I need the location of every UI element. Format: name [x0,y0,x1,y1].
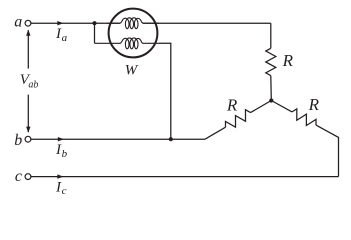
terminal b [25,136,31,142]
svg-text:R: R [226,95,238,114]
current arrow Ib [58,137,64,141]
voltage arrow Vab (double-headed, between a and b) [27,30,29,68]
wire: phase c line [31,176,339,178]
svg-text:ab: ab [28,80,38,91]
wire: b corner up to resistor R (left) [205,127,226,139]
svg-text:W: W [125,63,139,79]
current arrow Ic [57,174,63,178]
junction: b-line with wattmeter potential-coil return [169,137,173,141]
resistor R (left, phase b) [225,110,250,127]
wattmeter W: current coil (in phase a line) [107,18,159,29]
terminal a [25,20,31,26]
terminal c [25,174,31,180]
wattmeter W: meter circle [109,9,158,58]
wire: phase a line, wattmeter to top-right corner [143,22,271,24]
wattmeter W: potential coil [95,38,160,49]
svg-text:R: R [282,51,294,70]
svg-text:b: b [14,132,22,149]
wire: potential-coil left lead from junction down [94,23,96,43]
current arrow Ia [57,21,63,25]
wire: potential-coil right lead over and down to b line [159,43,171,139]
wire: wye node to resistor R (right) [271,101,292,112]
svg-text:a: a [62,32,68,44]
svg-text:c: c [62,185,67,197]
wire: resistor R (left) to wye node [251,101,272,113]
resistor R (right, phase c) [292,109,316,126]
wire: resistor R (top) to wye node [270,76,273,101]
resistor R (top, phase a) [266,48,276,75]
wire: phase a line from terminal a to top-right corner [31,22,120,24]
wire: resistor R (right) down to c-line corner [316,125,339,177]
svg-text:c: c [15,168,22,185]
wire: phase b line [31,138,205,140]
junction: a-line tap to wattmeter potential coil [92,21,96,25]
svg-text:b: b [62,148,68,160]
node: wye neutral junction [269,98,273,102]
wire: top-right corner down to resistor R (top) [270,23,272,48]
svg-text:R: R [308,95,320,114]
svg-text:a: a [14,13,22,30]
